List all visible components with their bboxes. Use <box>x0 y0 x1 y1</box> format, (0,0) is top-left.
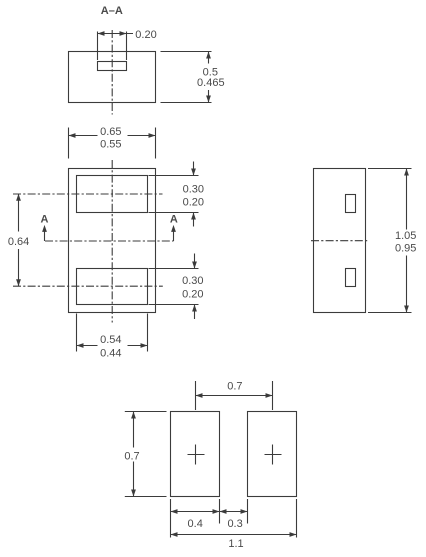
svg-text:A: A <box>170 214 178 226</box>
svg-text:0.30: 0.30 <box>182 275 203 287</box>
dimension 0.20 (pad width, section view) <box>98 29 157 60</box>
top pad center line (top view) <box>13 193 163 195</box>
svg-text:0.64: 0.64 <box>8 236 29 248</box>
dimension 0.30 / 0.20 (bottom pad height) <box>149 254 204 320</box>
dimension 1.1 (overall width, land pattern) <box>171 499 297 550</box>
top terminal (side view) <box>346 195 356 213</box>
dimension 0.7 (pad pitch, land pattern) <box>196 381 273 410</box>
package outline (section A-A view) <box>69 52 156 103</box>
center line (section view) <box>111 30 113 115</box>
svg-text:0.7: 0.7 <box>227 381 242 393</box>
package outline (side view) <box>314 169 366 313</box>
svg-text:0.44: 0.44 <box>100 347 121 359</box>
dimension 0.65 / 0.55 (package width, top view) <box>69 126 156 158</box>
svg-text:1.1: 1.1 <box>228 538 243 550</box>
section arrow A (right) <box>170 214 178 241</box>
dimension 0.7 (pad height, land pattern) <box>124 412 166 497</box>
svg-text:A–A: A–A <box>101 5 123 17</box>
svg-text:0.3: 0.3 <box>227 518 242 530</box>
bottom terminal (side view) <box>346 269 356 287</box>
svg-text:0.54: 0.54 <box>100 334 121 346</box>
exposed pad (section view) <box>98 62 127 71</box>
svg-text:0.20: 0.20 <box>135 29 156 41</box>
svg-text:0.65: 0.65 <box>100 126 121 138</box>
center mark left pad <box>188 445 205 465</box>
center line (side view) <box>311 240 369 242</box>
terminal pad bottom (top view) <box>77 269 148 305</box>
dimension 0.4 (left pad width, land pattern) <box>171 499 220 538</box>
center mark right pad <box>265 445 282 465</box>
dimension 1.05 / 0.95 (package length, side view) <box>368 169 416 313</box>
svg-text:0.20: 0.20 <box>183 197 204 209</box>
dimension 0.54 / 0.44 (pad width, bottom) <box>77 314 148 360</box>
dimension 0.5 / 0.465 (package height, section view) <box>161 52 225 103</box>
section label A-A <box>101 5 123 17</box>
dimension 0.30 / 0.20 (top pad height) <box>149 162 205 227</box>
dimension 0.64 (pad pitch, left) <box>8 194 29 287</box>
land pad right <box>248 412 297 497</box>
svg-text:0.20: 0.20 <box>182 288 203 300</box>
section arrow A (left) <box>41 214 49 241</box>
vertical center line (top view) <box>111 160 113 323</box>
svg-text:0.465: 0.465 <box>197 77 225 89</box>
bottom pad center line (top view) <box>13 285 163 287</box>
dimension 0.3 (pad gap, land pattern) <box>220 499 248 530</box>
land pad left <box>171 412 220 497</box>
svg-text:0.7: 0.7 <box>124 450 139 462</box>
package outline (top view) <box>69 169 156 313</box>
svg-text:0.55: 0.55 <box>100 138 121 150</box>
terminal pad top (top view) <box>77 176 148 213</box>
svg-text:0.30: 0.30 <box>183 184 204 196</box>
svg-text:0.95: 0.95 <box>395 243 416 255</box>
svg-text:0.4: 0.4 <box>188 518 203 530</box>
section line A-A (top view) <box>45 240 174 242</box>
svg-text:A: A <box>41 214 49 226</box>
svg-text:1.05: 1.05 <box>395 230 416 242</box>
